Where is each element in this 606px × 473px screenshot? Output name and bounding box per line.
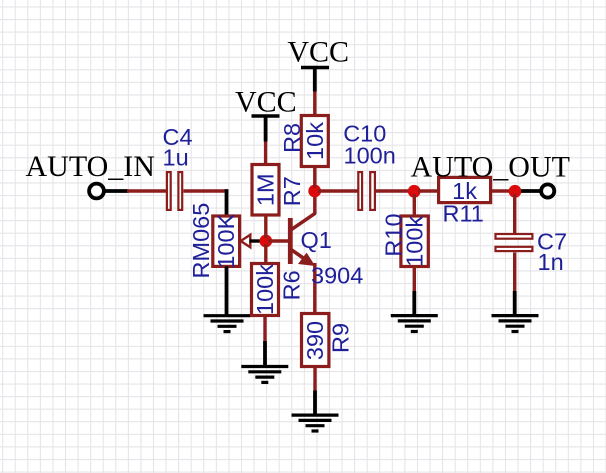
value 10k [302, 122, 328, 160]
value 3904 [311, 263, 363, 289]
resistor R7 [252, 165, 279, 216]
label Q1 [301, 227, 332, 253]
ground under R10 [391, 316, 438, 332]
label R8 [279, 123, 305, 153]
svg-text:AUTO_OUT: AUTO_OUT [411, 150, 570, 183]
ground under R6 [241, 367, 288, 383]
transistor Q1 [288, 188, 315, 266]
wire VCC2 to R7 [264, 142, 267, 167]
junction dot J3 [408, 185, 421, 198]
net label AUTO_OUT [411, 150, 570, 183]
svg-text:R10: R10 [381, 213, 407, 256]
wire Q1 emitter to R9 [313, 263, 316, 315]
gnd stub R9 [313, 391, 317, 416]
wire VCC1 to R8 [313, 92, 316, 118]
capacitor C7 [496, 234, 533, 251]
gnd stub C7 [513, 291, 517, 316]
wire R11 to J4 [491, 189, 511, 192]
wire R7 to J1 [264, 214, 267, 238]
svg-text:100n: 100n [344, 143, 396, 169]
gnd stub R10 [412, 291, 416, 316]
value 100n [344, 143, 396, 169]
power VCC2 text [235, 86, 297, 119]
trimmer RM065 body [213, 216, 240, 266]
svg-text:R11: R11 [443, 201, 484, 227]
power VCC1 text [287, 36, 349, 69]
svg-text:VCC: VCC [235, 86, 297, 119]
wire R10 to gnd [413, 267, 416, 292]
label C4 [163, 124, 193, 150]
svg-text:100k: 100k [252, 264, 278, 315]
junction dot J2 [308, 185, 321, 198]
svg-text:10k: 10k [302, 122, 328, 160]
capacitor C10 [358, 172, 375, 210]
label R11 [443, 201, 484, 227]
resistor R8 [301, 116, 328, 167]
value 1u [163, 144, 189, 170]
VCC2 bar [252, 114, 280, 117]
resistor R9 [302, 314, 329, 367]
value 1k [452, 178, 477, 204]
value 100k R6 [252, 264, 278, 315]
junction dot J4 [509, 185, 522, 198]
svg-text:1u: 1u [163, 144, 189, 170]
svg-text:1M: 1M [253, 173, 279, 206]
port AUTO_OUT stub [521, 189, 540, 193]
label R9 [328, 323, 354, 353]
capacitor C4 [167, 172, 182, 210]
port AUTO_IN [89, 184, 128, 199]
label R7 [279, 176, 305, 206]
svg-text:R7: R7 [279, 176, 305, 206]
wire R6 to gnd [263, 316, 266, 342]
wire C7 to gnd [513, 253, 516, 292]
svg-text:R6: R6 [279, 270, 305, 300]
junction dot J1 [259, 235, 272, 248]
svg-text:100K: 100K [213, 213, 239, 268]
wire C10 to J3 [376, 189, 411, 192]
wire J3 to R10 [413, 194, 416, 217]
ground under trimmer [204, 316, 251, 332]
svg-text:1n: 1n [538, 249, 564, 275]
svg-text:AUTO_IN: AUTO_IN [26, 150, 155, 183]
label R6 [279, 270, 305, 300]
wire J3 to R11 [418, 189, 439, 192]
svg-text:Q1: Q1 [301, 227, 332, 253]
label R10 [381, 213, 407, 256]
svg-text:RM065: RM065 [188, 203, 214, 279]
ground under R9 [292, 415, 339, 431]
VCC1 bar [301, 66, 329, 69]
wire R9 to gnd [313, 367, 316, 391]
trimmer name RM065 [188, 203, 214, 279]
svg-text:3904: 3904 [311, 263, 363, 289]
VCC1 stub [313, 68, 317, 92]
wire J2 to C10 [318, 189, 358, 192]
label C7 [537, 229, 567, 255]
resistor R6 [252, 264, 279, 316]
wire R8 to J2 [313, 165, 316, 188]
wire port to C4 [127, 189, 167, 192]
ground under C7 [492, 316, 539, 332]
VCC2 stub [264, 116, 268, 142]
wire C4 to corner [183, 189, 228, 192]
wire J1 to R6 [264, 244, 267, 265]
port AUTO_OUT [541, 184, 554, 197]
svg-text:390: 390 [302, 321, 328, 360]
svg-text:VCC: VCC [287, 36, 349, 69]
svg-text:R9: R9 [328, 323, 354, 353]
wire J1 to Q1 base [268, 239, 289, 242]
label C10 [343, 121, 386, 147]
net label AUTO_IN [26, 150, 155, 183]
resistor R11 [439, 177, 491, 202]
trimmer value 100K [213, 213, 239, 268]
wire J4 to C7 [513, 194, 516, 233]
svg-text:R8: R8 [279, 123, 305, 153]
value 390 [302, 321, 328, 360]
gnd stub R6 [263, 341, 267, 367]
resistor R10 [401, 216, 428, 267]
value 1n [538, 249, 564, 275]
trimmer pin bottom [225, 266, 229, 315]
trimmer wiper arrow [241, 235, 251, 248]
value 100k R10 [402, 216, 428, 267]
wiper stub [250, 239, 260, 242]
pin corner to RM065 [225, 189, 229, 216]
value 1M [253, 173, 279, 206]
